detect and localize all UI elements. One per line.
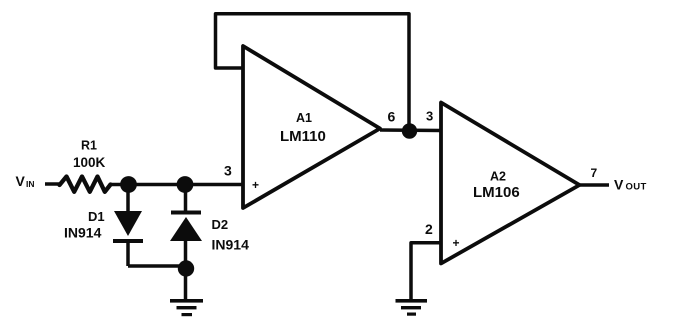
svg-text:+: + [252, 178, 259, 192]
svg-text:D1: D1 [88, 209, 105, 224]
svg-text:7: 7 [591, 166, 598, 180]
svg-text:V: V [614, 177, 624, 193]
svg-text:LM110: LM110 [280, 128, 326, 145]
svg-text:V: V [16, 173, 26, 189]
svg-text:+: + [453, 236, 460, 250]
svg-text:IN914: IN914 [212, 237, 250, 253]
svg-text:A2: A2 [490, 170, 506, 184]
svg-text:100K: 100K [73, 155, 106, 170]
svg-text:3: 3 [224, 163, 232, 179]
svg-text:R1: R1 [81, 139, 97, 153]
svg-text:2: 2 [425, 221, 433, 237]
svg-text:LM106: LM106 [473, 184, 520, 201]
svg-text:OUT: OUT [626, 182, 647, 193]
svg-text:IN914: IN914 [64, 225, 102, 241]
svg-text:IN: IN [26, 179, 35, 189]
svg-text:D2: D2 [212, 217, 229, 232]
svg-text:A1: A1 [296, 111, 312, 125]
svg-text:6: 6 [388, 109, 396, 125]
svg-text:3: 3 [426, 109, 433, 124]
